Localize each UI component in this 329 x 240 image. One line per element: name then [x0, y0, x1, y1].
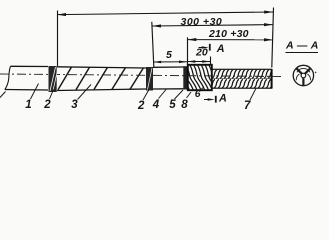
svg-text:8: 8 [181, 99, 188, 111]
leader 2 right [143, 90, 149, 101]
svg-text:5: 5 [166, 49, 172, 61]
svg-text:3: 3 [71, 99, 78, 111]
extension line x=57 [57, 11, 59, 67]
leader 6 [199, 87, 203, 91]
centerline [0, 74, 281, 77]
svg-text:210 +30: 210 +30 [208, 28, 249, 40]
leader 3 [78, 85, 92, 100]
dimension 5 [153, 61, 187, 64]
svg-text:300 +30: 300 +30 [181, 16, 223, 28]
leader 4 [159, 90, 167, 99]
serving band 2 (right) [146, 67, 153, 91]
extension line x=152.5 [152, 22, 154, 67]
section arrow A (bottom) [204, 96, 216, 103]
serving band 2 (left) [49, 66, 59, 92]
extension line x=272.5 (cable tip) [272, 8, 274, 68]
speck [315, 72, 317, 74]
leader 2 left [50, 90, 54, 100]
svg-text:7: 7 [244, 100, 251, 112]
extension line x=210.8 (short) [210, 57, 212, 65]
svg-text:A: A [216, 43, 225, 55]
plain cable section, items 4 [153, 67, 184, 89]
section arrow A (top) [199, 44, 210, 51]
svg-text:5: 5 [169, 99, 176, 111]
svg-text:2: 2 [43, 99, 51, 111]
section A-A circle (cable cross-section) [293, 65, 313, 85]
dimension 210+30 [187, 38, 273, 41]
cable tip edge [271, 69, 273, 89]
leader 5 [175, 90, 184, 99]
bottom-left artifact stroke [0, 92, 6, 98]
leader 8 [187, 92, 192, 98]
braided sleeve item 7 [208, 69, 275, 89]
svg-text:A: A [218, 92, 227, 104]
dimension 300+30 [152, 23, 273, 27]
seizing band, item 5 [183, 66, 188, 89]
twisted strand section, item 3 [57, 67, 146, 91]
cable body outline (left plain section, item 1) [5, 66, 48, 90]
svg-text:20: 20 [195, 47, 208, 59]
dimension line L1 (overall, unlabeled) [57, 11, 273, 17]
A-A underline [286, 52, 319, 54]
svg-text:2: 2 [137, 100, 145, 112]
leader 1 [31, 84, 39, 100]
svg-text:A — A: A — A [285, 39, 319, 51]
dimension 20 [187, 60, 210, 63]
extension line x=187.3 [187, 37, 189, 65]
svg-text:4: 4 [152, 99, 160, 111]
ferrule item 8 (hatched) [178, 64, 220, 90]
svg-text:1: 1 [25, 99, 31, 111]
svg-text:6: 6 [195, 89, 201, 100]
leader 7 [250, 88, 256, 100]
